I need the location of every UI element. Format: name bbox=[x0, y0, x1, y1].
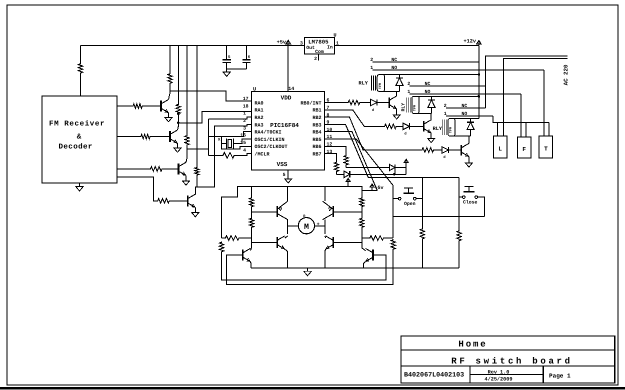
svg-text:Out: Out bbox=[306, 45, 315, 51]
svg-text:RB2: RB2 bbox=[312, 115, 321, 121]
wire relay1 +12 row bbox=[381, 74, 479, 76]
resistor R2 base Q_A bbox=[132, 104, 143, 109]
svg-text:d: d bbox=[443, 155, 445, 160]
regulator U2 LM7805 box bbox=[305, 37, 335, 54]
svg-text:RB6: RB6 bbox=[312, 144, 321, 150]
wire UR emitter to rail bbox=[324, 187, 326, 202]
resistor R6 base Q_C bbox=[149, 167, 163, 172]
ground for caps bbox=[226, 69, 228, 72]
wire FM out1 bbox=[117, 105, 132, 107]
wire bus to F box bbox=[525, 122, 527, 137]
wire relay3 +12 row bbox=[452, 118, 480, 120]
wire LL base bbox=[252, 242, 278, 244]
wire motor left bbox=[288, 225, 299, 227]
wire Q_C emitter gnd bbox=[185, 176, 187, 181]
svg-text:Home: Home bbox=[458, 340, 487, 350]
svg-text:F: F bbox=[522, 146, 526, 153]
wire UL collector to motor node bbox=[287, 220, 289, 234]
transistor Q_C bbox=[178, 163, 180, 174]
wire Q_B emitter gnd bbox=[177, 143, 179, 148]
wire RB6 diode row bbox=[346, 167, 389, 169]
wire Q2 emitter gnd bbox=[430, 133, 432, 138]
relay RLY1 coil bbox=[371, 76, 373, 91]
wire RB7 net bbox=[325, 154, 337, 162]
wire RB1 net with diagonal bbox=[325, 110, 384, 127]
svg-text:OSC2/CLKOUT: OSC2/CLKOUT bbox=[255, 144, 288, 150]
svg-text:RA1: RA1 bbox=[255, 108, 264, 114]
resistor R20 left cross bbox=[224, 236, 240, 241]
svg-text:RB1: RB1 bbox=[312, 108, 321, 114]
wire crystal left loop bbox=[222, 136, 252, 149]
resistor R11 bbox=[383, 124, 397, 129]
load box L bbox=[494, 136, 507, 158]
wire AC line 1 bbox=[486, 56, 568, 108]
diode D1 bbox=[371, 99, 377, 105]
switch SW2 Close bbox=[462, 196, 465, 199]
diode D6 flyback relay3 bbox=[470, 119, 472, 123]
junction dot diode bar bbox=[393, 173, 396, 176]
wire bus to L box bbox=[497, 122, 499, 136]
wire Q1 collector to relay1 bbox=[396, 92, 398, 96]
resistor R19 right lower bbox=[360, 218, 364, 229]
transistor Q10 NPN outer lower-right bbox=[372, 250, 374, 261]
wire open button left bbox=[393, 198, 398, 200]
wire Q10 emitter bbox=[364, 262, 366, 268]
wire RA0 net bbox=[170, 91, 251, 101]
transistor Q2 bbox=[423, 121, 425, 131]
wire motor right bbox=[314, 225, 325, 227]
wire LL emitter bbox=[285, 249, 288, 251]
resistor R12 bbox=[421, 148, 435, 153]
transistor Q6 NPN lower-left bbox=[276, 237, 278, 248]
svg-text:RA0: RA0 bbox=[255, 100, 264, 106]
resistor R13 on RB5 line bbox=[391, 239, 395, 250]
wire bridge bottom rail bbox=[251, 267, 459, 269]
wire NO3 to bus bbox=[493, 116, 549, 122]
relay RLY3 coil bbox=[441, 120, 443, 135]
svg-text:Page 1: Page 1 bbox=[549, 373, 571, 380]
resistor R18 right upper bbox=[360, 197, 364, 207]
svg-text:18: 18 bbox=[243, 104, 249, 110]
wire RB5 line to loop2 bbox=[227, 250, 394, 284]
svg-text:RB7: RB7 bbox=[312, 152, 321, 158]
wire UR base bbox=[333, 211, 362, 213]
svg-text:Rev 1.0: Rev 1.0 bbox=[488, 369, 510, 375]
svg-text:OSC1/CLKIN: OSC1/CLKIN bbox=[255, 137, 285, 143]
svg-text:17: 17 bbox=[243, 96, 249, 102]
transistor Q9 NPN outer lower-left bbox=[242, 250, 244, 261]
wire NO2 to F box bbox=[520, 94, 522, 137]
wire UL base bbox=[252, 211, 278, 213]
wire relay2 +12 row bbox=[416, 95, 480, 97]
capacitor C1 bbox=[226, 46, 228, 60]
svg-text:RA2: RA2 bbox=[255, 115, 264, 121]
wire UL emitter to rail bbox=[287, 187, 289, 202]
svg-text:RB3: RB3 bbox=[312, 122, 321, 128]
title block outer bbox=[401, 336, 615, 383]
page bottom edge thick line bbox=[0, 387, 625, 390]
title block rev divider bbox=[470, 374, 543, 376]
wire crystal left bbox=[222, 143, 227, 145]
motor M1 bbox=[298, 218, 314, 234]
wire +12v vertical feed to relays bbox=[478, 46, 480, 119]
wire right base junction row bbox=[362, 237, 369, 239]
load box T bbox=[539, 136, 552, 158]
wire relay2 coil bottom bbox=[416, 113, 432, 115]
junction dot bbox=[177, 113, 180, 116]
wire close pulldown column bbox=[458, 178, 460, 230]
svg-text:+12v: +12v bbox=[464, 38, 477, 44]
resistor R4 base Q_B bbox=[140, 134, 151, 139]
resistor R3 collector Q_A bbox=[168, 73, 172, 84]
wire FM out4 bbox=[117, 177, 157, 201]
svg-text:2: 2 bbox=[314, 56, 317, 62]
svg-text:Close: Close bbox=[463, 200, 478, 206]
svg-text:Com: Com bbox=[315, 49, 324, 55]
wire cap commons bbox=[227, 68, 247, 70]
svg-text:x: x bbox=[218, 138, 221, 143]
wire bridge top rail bbox=[222, 187, 363, 238]
resistor R14 bbox=[344, 155, 348, 166]
U1 PIC16F84 box bbox=[251, 92, 324, 171]
wire right column stub bbox=[361, 191, 363, 198]
pin 5 VSS stub bbox=[287, 170, 289, 179]
wire LM7805 out to +12 node bbox=[334, 45, 479, 47]
svg-text:RLY: RLY bbox=[400, 103, 406, 112]
wire left column stub bbox=[251, 187, 253, 198]
svg-text:4: 4 bbox=[243, 148, 246, 154]
svg-text:1: 1 bbox=[243, 111, 246, 117]
resistor R9 base Q_D bbox=[157, 199, 171, 204]
capacitor C2 bbox=[246, 46, 248, 60]
transistor Q3 bbox=[460, 145, 462, 156]
transistor Q7 PNP upper-right bbox=[332, 206, 334, 217]
wire RA1 net bbox=[178, 111, 251, 123]
resistor R10 bbox=[347, 100, 361, 105]
load box F bbox=[518, 137, 531, 158]
wire left base junction row bbox=[222, 237, 225, 239]
svg-text:RB5: RB5 bbox=[312, 137, 321, 143]
wire to FM box top bbox=[80, 74, 82, 96]
svg-text:TFM: TFM bbox=[449, 127, 454, 133]
wire link column RA2/RA4/MCLR bbox=[207, 119, 209, 155]
svg-text:/MCLR: /MCLR bbox=[255, 152, 270, 158]
svg-text:&: & bbox=[77, 134, 82, 142]
resistor R21 right cross bbox=[369, 236, 385, 241]
wire /MCLR net bbox=[187, 148, 208, 150]
wire Q_D emitter gnd bbox=[194, 207, 196, 212]
ground below FM box bbox=[79, 183, 81, 186]
transistor Q_A bbox=[160, 101, 162, 112]
junction +12/relay1 bbox=[478, 73, 481, 76]
svg-text:d: d bbox=[372, 108, 374, 113]
transistor Q_B bbox=[169, 131, 171, 142]
svg-text:Decoder: Decoder bbox=[59, 142, 93, 151]
junction +12/relay2 bbox=[478, 95, 481, 98]
ground VSS bbox=[285, 179, 292, 183]
wire FM out2 bbox=[117, 136, 140, 138]
svg-text:VDD: VDD bbox=[281, 95, 292, 102]
svg-text:RB0/INT: RB0/INT bbox=[300, 100, 321, 106]
pin 2 stub LM7805 com bbox=[317, 54, 319, 60]
svg-text:VSS: VSS bbox=[277, 161, 288, 168]
wire VDD drop bbox=[287, 46, 289, 92]
+5v arrow pullup bbox=[405, 159, 407, 163]
wire FM out3 bbox=[117, 168, 149, 170]
diode D4 flyback relay1 bbox=[399, 75, 401, 79]
svg-text:Open: Open bbox=[404, 201, 416, 207]
resistor R22 left outer bbox=[219, 242, 223, 253]
wire LR base bbox=[333, 242, 362, 244]
svg-text:M: M bbox=[304, 223, 309, 232]
wire to Q_A base bbox=[143, 105, 161, 107]
wire RB7 diode row bbox=[337, 173, 345, 175]
svg-text:3: 3 bbox=[300, 40, 303, 46]
title block row line 1 bbox=[401, 349, 615, 351]
wire RB3 net diagonal to buttons bbox=[325, 124, 460, 177]
switch SW1 Open bbox=[398, 197, 401, 200]
wire +5v rail top bbox=[81, 45, 305, 47]
svg-text:PIC16F84: PIC16F84 bbox=[270, 122, 299, 129]
svg-text:5: 5 bbox=[283, 172, 286, 178]
wire RB0 net bbox=[325, 102, 347, 104]
wire bus to T box bbox=[548, 122, 550, 136]
wire NO1 to T box bbox=[543, 70, 545, 136]
wire Q_A pullup to rail bbox=[169, 46, 171, 74]
svg-text:RLY: RLY bbox=[433, 126, 443, 132]
svg-text:U: U bbox=[253, 86, 256, 92]
resistor R17 left lower bbox=[249, 218, 253, 229]
wire Q_A collector up bbox=[169, 84, 171, 100]
block FM Receiver & Decoder bbox=[42, 96, 117, 183]
wire open pulldown column bbox=[421, 178, 423, 229]
wire Q9 collector bbox=[250, 248, 251, 251]
wire Q_B pullup to rail bbox=[177, 46, 179, 104]
diode D5 flyback relay2 bbox=[431, 96, 433, 100]
transistor Q5 PNP upper-left bbox=[276, 206, 278, 217]
title block col line 2 bbox=[542, 366, 544, 383]
svg-text:14: 14 bbox=[288, 86, 294, 92]
wire AC line 2 bbox=[504, 58, 568, 136]
wire LL collector bbox=[285, 236, 288, 238]
title block row line 2 bbox=[401, 365, 615, 367]
svg-text:RLY: RLY bbox=[359, 80, 369, 86]
svg-text:4/25/2009: 4/25/2009 bbox=[484, 376, 512, 382]
supply arrow on bridge rail bbox=[347, 178, 349, 182]
wire open button right bbox=[416, 198, 422, 200]
diode D2 bbox=[403, 123, 409, 129]
title block col line 1 bbox=[469, 366, 471, 383]
svg-text:B402067L0402103: B402067L0402103 bbox=[404, 372, 464, 380]
resistor R25 collector Q_D bbox=[195, 167, 199, 176]
wire relay3 coil bottom bbox=[452, 135, 471, 137]
resistor R7 collector Q_C bbox=[185, 135, 189, 146]
svg-text:RB4: RB4 bbox=[312, 130, 321, 136]
transistor Q_D bbox=[187, 195, 189, 206]
wire Q_A emitter to gnd bbox=[168, 113, 170, 118]
wire Q3 collector to relay3 bbox=[468, 136, 470, 144]
svg-text:FM Receiver: FM Receiver bbox=[49, 120, 105, 129]
junction dot RA1 bbox=[177, 122, 180, 125]
svg-text:T: T bbox=[544, 146, 548, 153]
wire bridge +5 feed W5 bbox=[362, 190, 378, 192]
wire Q3 emitter gnd bbox=[468, 157, 470, 163]
transistor Q1 bbox=[388, 97, 390, 108]
svg-text:TFM: TFM bbox=[413, 105, 418, 111]
svg-text:In: In bbox=[327, 45, 333, 51]
svg-text:+: + bbox=[317, 221, 320, 227]
wire Q2 collector to relay2 bbox=[430, 114, 432, 120]
wire crystal right to OSC1 bbox=[233, 139, 251, 144]
resistor R1 (FM box supply) bbox=[78, 63, 82, 74]
resistor R15 bbox=[334, 162, 338, 173]
diode D7 bbox=[389, 164, 395, 170]
wire close button right bbox=[478, 197, 485, 217]
resistor R5 collector Q_B bbox=[176, 104, 180, 115]
wire rail drop to R pullup Q_A bbox=[80, 46, 82, 64]
wire Q_B collector up bbox=[177, 115, 180, 131]
wire RB6 net bbox=[325, 146, 347, 155]
wire Q_C collector up bbox=[186, 149, 187, 162]
wire buttons bottom row bbox=[393, 216, 484, 218]
wire RA4 net bbox=[208, 132, 251, 137]
resistor R23 open pulldown bbox=[420, 228, 424, 239]
transistor Q8 NPN lower-right bbox=[332, 237, 334, 248]
svg-text:16: 16 bbox=[240, 133, 246, 139]
+5v arrow at bridge bbox=[371, 184, 373, 188]
wire LR emitter bbox=[324, 249, 327, 251]
wire Q_C pullup to rail bbox=[186, 46, 188, 135]
wire RA2 net bbox=[208, 117, 251, 119]
svg-text:2: 2 bbox=[243, 118, 246, 124]
resistor R8 MCLR bbox=[222, 152, 235, 158]
resistor R24 close pulldown bbox=[457, 230, 461, 241]
svg-text:RA4/T0CKI: RA4/T0CKI bbox=[255, 130, 282, 136]
svg-text:AC 220: AC 220 bbox=[563, 64, 570, 85]
wire Q1 emitter gnd bbox=[396, 109, 398, 115]
svg-text:+5v: +5v bbox=[277, 40, 287, 46]
svg-text:LM7805: LM7805 bbox=[308, 38, 329, 45]
wire Q_D collector to RA3 bbox=[195, 124, 251, 194]
relay RLY2 coil bbox=[405, 97, 407, 112]
diode D8 bbox=[344, 171, 350, 177]
svg-text:L: L bbox=[498, 146, 502, 153]
wire close button left bbox=[459, 196, 462, 198]
svg-text:d: d bbox=[404, 132, 406, 137]
wire RB2 net with diagonal bbox=[325, 117, 421, 150]
diode D3 bbox=[442, 147, 448, 153]
svg-text:RA3: RA3 bbox=[255, 122, 264, 128]
wire relay1 coil bottom bbox=[381, 91, 400, 93]
resistor R16 left upper bbox=[249, 197, 253, 207]
wire Q9 emitter bbox=[249, 262, 252, 268]
wire LR collector bbox=[324, 236, 327, 238]
wire RB4 net diagonal bbox=[325, 132, 378, 191]
svg-text:TFM: TFM bbox=[378, 83, 383, 89]
wire rail drop 4 / Q_D pullup bbox=[196, 46, 198, 167]
ground bridge bbox=[307, 268, 309, 271]
svg-text:U: U bbox=[334, 32, 337, 38]
wire Q10 collector bbox=[362, 248, 366, 251]
wire RB5 net diagonal bbox=[325, 139, 394, 238]
wire UR collector to motor node bbox=[324, 220, 326, 234]
wire left outer to loop1 bbox=[222, 253, 386, 280]
svg-text:RF switch board: RF switch board bbox=[451, 357, 573, 367]
svg-text:+5v: +5v bbox=[375, 185, 384, 191]
